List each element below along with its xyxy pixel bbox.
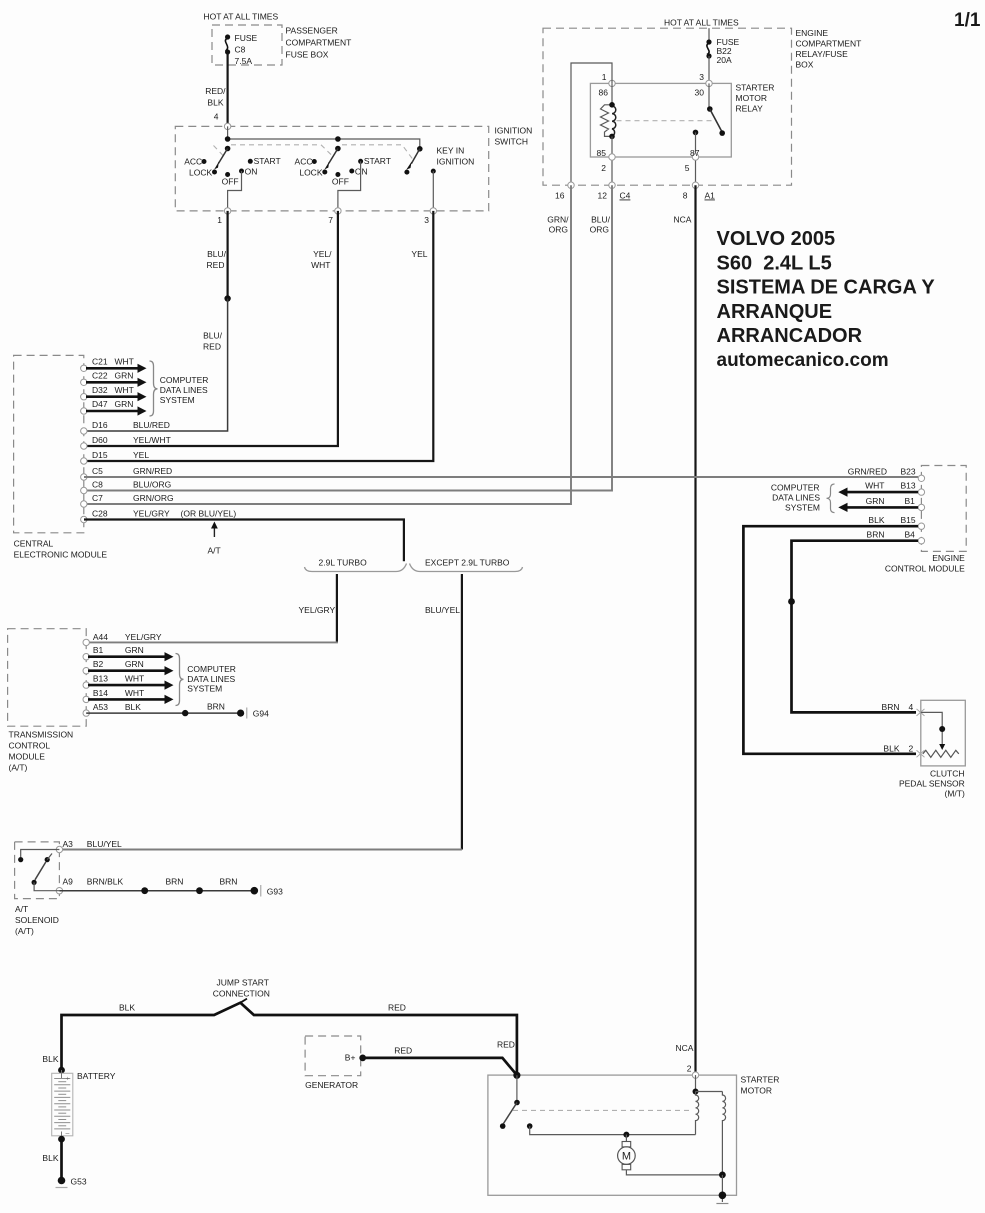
svg-text:NCA: NCA (676, 1043, 694, 1053)
svg-text:4: 4 (909, 702, 914, 712)
svg-text:ACC: ACC (184, 157, 202, 167)
svg-text:2: 2 (601, 163, 606, 173)
svg-text:ARRANQUE: ARRANQUE (717, 301, 833, 323)
svg-text:7: 7 (328, 215, 333, 225)
svg-text:B14: B14 (93, 688, 108, 698)
svg-text:C5: C5 (92, 466, 103, 476)
svg-text:SISTEMA DE CARGA Y: SISTEMA DE CARGA Y (717, 277, 936, 299)
svg-text:BLU/YEL: BLU/YEL (87, 839, 122, 849)
svg-text:85: 85 (597, 148, 607, 158)
svg-text:HOT AT ALL TIMES: HOT AT ALL TIMES (664, 18, 739, 28)
svg-text:BLK: BLK (207, 98, 223, 108)
svg-text:RED: RED (497, 1040, 515, 1050)
svg-text:B13: B13 (901, 481, 916, 491)
svg-text:B13: B13 (93, 674, 108, 684)
svg-text:3: 3 (699, 72, 704, 82)
svg-text:PEDAL SENSOR: PEDAL SENSOR (899, 779, 965, 789)
svg-text:WHT: WHT (115, 357, 134, 367)
svg-text:BLK: BLK (125, 702, 141, 712)
svg-text:ARRANCADOR: ARRANCADOR (717, 325, 863, 347)
svg-text:BOX: BOX (796, 60, 814, 70)
svg-text:–: – (66, 1131, 70, 1138)
svg-text:BLU/: BLU/ (591, 215, 611, 225)
svg-text:BLU/ORG: BLU/ORG (133, 480, 171, 490)
svg-text:IGNITION: IGNITION (437, 157, 475, 167)
svg-text:RED/: RED/ (205, 86, 226, 96)
svg-text:DATA LINES: DATA LINES (160, 385, 208, 395)
svg-text:D60: D60 (92, 435, 108, 445)
svg-text:2: 2 (909, 743, 914, 753)
svg-text:VOLVO 2005: VOLVO 2005 (717, 228, 836, 250)
svg-text:G94: G94 (253, 709, 269, 719)
svg-text:BRN: BRN (220, 877, 238, 887)
svg-text:DATA LINES: DATA LINES (187, 674, 235, 684)
svg-text:C7: C7 (92, 493, 103, 503)
svg-text:STARTER: STARTER (741, 1075, 780, 1085)
svg-text:(M/T): (M/T) (945, 789, 965, 799)
svg-text:B15: B15 (901, 515, 916, 525)
svg-text:OFF: OFF (222, 177, 239, 187)
svg-text:MOTOR: MOTOR (736, 93, 767, 103)
svg-text:JUMP START: JUMP START (217, 978, 269, 988)
svg-text:ON: ON (355, 167, 368, 177)
svg-text:BLK: BLK (42, 1054, 58, 1064)
svg-text:ELECTRONIC MODULE: ELECTRONIC MODULE (14, 550, 108, 560)
svg-text:BRN: BRN (867, 529, 885, 539)
svg-text:SYSTEM: SYSTEM (785, 503, 820, 513)
svg-text:C4: C4 (620, 191, 631, 201)
svg-text:GRN/ORG: GRN/ORG (133, 493, 174, 503)
svg-text:2.9L TURBO: 2.9L TURBO (319, 558, 368, 568)
svg-text:GRN: GRN (115, 371, 134, 381)
svg-text:1/1: 1/1 (954, 10, 981, 31)
svg-text:86: 86 (599, 88, 609, 98)
svg-text:1: 1 (602, 72, 607, 82)
svg-text:16: 16 (555, 191, 565, 201)
svg-text:WHT: WHT (311, 260, 330, 270)
svg-text:WHT: WHT (125, 674, 144, 684)
svg-text:RELAY/FUSE: RELAY/FUSE (796, 49, 849, 59)
svg-text:D15: D15 (92, 450, 108, 460)
svg-text:7.5A: 7.5A (235, 56, 253, 66)
svg-text:G53: G53 (71, 1177, 87, 1187)
svg-text:YEL/GRY: YEL/GRY (133, 509, 170, 519)
svg-text:GRN: GRN (866, 496, 885, 506)
svg-text:COMPUTER: COMPUTER (187, 664, 236, 674)
svg-text:MODULE: MODULE (9, 752, 46, 762)
svg-text:BLK: BLK (868, 515, 884, 525)
svg-text:B1: B1 (93, 645, 104, 655)
svg-text:D32: D32 (92, 385, 108, 395)
svg-text:RED: RED (394, 1046, 412, 1056)
svg-text:BATTERY: BATTERY (77, 1071, 116, 1081)
svg-text:MOTOR: MOTOR (741, 1086, 772, 1096)
svg-text:GRN/RED: GRN/RED (848, 467, 887, 477)
svg-text:GRN/RED: GRN/RED (133, 466, 172, 476)
svg-text:ORG: ORG (590, 225, 609, 235)
svg-text:YEL: YEL (133, 450, 149, 460)
svg-text:(A/T): (A/T) (15, 926, 34, 936)
svg-text:WHT: WHT (115, 385, 134, 395)
svg-text:D16: D16 (92, 420, 108, 430)
svg-text:LOCK: LOCK (299, 168, 322, 178)
svg-text:A9: A9 (63, 877, 74, 887)
svg-text:BRN: BRN (882, 702, 900, 712)
svg-text:GENERATOR: GENERATOR (305, 1080, 358, 1090)
svg-text:WHT: WHT (125, 688, 144, 698)
svg-text:FUSE: FUSE (235, 33, 258, 43)
svg-text:D47: D47 (92, 399, 108, 409)
svg-text:A/T: A/T (208, 546, 221, 556)
svg-text:A53: A53 (93, 702, 108, 712)
svg-text:SWITCH: SWITCH (495, 137, 529, 147)
svg-text:SYSTEM: SYSTEM (187, 684, 222, 694)
svg-text:FUSE BOX: FUSE BOX (286, 50, 329, 60)
svg-text:STARTER: STARTER (736, 83, 775, 93)
svg-text:COMPUTER: COMPUTER (160, 375, 209, 385)
svg-text:C8: C8 (235, 45, 246, 55)
svg-text:S60 2.4L L5: S60 2.4L L5 (717, 252, 832, 274)
svg-text:GRN: GRN (115, 399, 134, 409)
svg-text:B23: B23 (901, 467, 916, 477)
svg-text:12: 12 (598, 191, 608, 201)
svg-text:LOCK: LOCK (189, 168, 212, 178)
svg-text:ORG: ORG (549, 225, 568, 235)
svg-text:DATA LINES: DATA LINES (772, 493, 820, 503)
svg-text:YEL: YEL (411, 249, 427, 259)
svg-text:EXCEPT 2.9L TURBO: EXCEPT 2.9L TURBO (425, 558, 510, 568)
svg-text:OFF: OFF (332, 177, 349, 187)
svg-text:BLU/YEL: BLU/YEL (425, 605, 460, 615)
svg-text:BLK: BLK (42, 1153, 58, 1163)
svg-text:NCA: NCA (674, 215, 692, 225)
svg-text:SYSTEM: SYSTEM (160, 395, 195, 405)
svg-text:87: 87 (690, 148, 700, 158)
svg-text:COMPARTMENT: COMPARTMENT (796, 39, 862, 49)
svg-text:GRN: GRN (125, 645, 144, 655)
svg-text:BLU/: BLU/ (203, 331, 223, 341)
svg-text:YEL/: YEL/ (313, 249, 332, 259)
svg-text:+: + (66, 1077, 70, 1083)
svg-text:3: 3 (424, 215, 429, 225)
svg-text:GRN: GRN (125, 659, 144, 669)
svg-text:KEY IN: KEY IN (437, 146, 465, 156)
svg-text:COMPARTMENT: COMPARTMENT (286, 38, 352, 48)
svg-text:RED: RED (203, 342, 221, 352)
svg-text:ENGINE: ENGINE (796, 28, 829, 38)
svg-text:B4: B4 (905, 529, 916, 539)
svg-text:PASSENGER: PASSENGER (286, 26, 338, 36)
svg-text:2: 2 (687, 1064, 692, 1074)
svg-text:YEL/GRY: YEL/GRY (299, 605, 336, 615)
svg-text:HOT AT ALL TIMES: HOT AT ALL TIMES (204, 12, 279, 22)
svg-text:CLUTCH: CLUTCH (930, 769, 964, 779)
svg-text:ON: ON (245, 167, 258, 177)
svg-text:TRANSMISSION: TRANSMISSION (9, 730, 74, 740)
svg-text:WHT: WHT (865, 481, 884, 491)
svg-text:SOLENOID: SOLENOID (15, 915, 59, 925)
svg-text:START: START (364, 156, 391, 166)
svg-text:BRN/BLK: BRN/BLK (87, 877, 124, 887)
svg-text:BLU/: BLU/ (207, 249, 227, 259)
svg-text:B2: B2 (93, 659, 104, 669)
svg-text:BLK: BLK (883, 743, 899, 753)
svg-text:20A: 20A (717, 55, 732, 65)
svg-text:(A/T): (A/T) (9, 763, 28, 773)
svg-text:RED: RED (388, 1003, 406, 1013)
svg-text:C21: C21 (92, 357, 108, 367)
svg-text:RELAY: RELAY (736, 104, 764, 114)
svg-text:CONTROL MODULE: CONTROL MODULE (885, 564, 965, 574)
svg-text:ACC: ACC (295, 157, 313, 167)
svg-text:COMPUTER: COMPUTER (771, 483, 820, 493)
svg-text:ENGINE: ENGINE (932, 553, 965, 563)
svg-text:5: 5 (685, 163, 690, 173)
svg-text:YEL/WHT: YEL/WHT (133, 435, 171, 445)
svg-text:IGNITION: IGNITION (495, 126, 533, 136)
svg-text:C22: C22 (92, 371, 108, 381)
svg-text:START: START (254, 156, 281, 166)
svg-text:BLU/RED: BLU/RED (133, 420, 170, 430)
svg-text:A3: A3 (63, 839, 74, 849)
svg-text:RED: RED (207, 260, 225, 270)
svg-text:CONTROL: CONTROL (9, 741, 51, 751)
svg-text:A44: A44 (93, 632, 108, 642)
svg-text:(OR BLU/YEL): (OR BLU/YEL) (181, 509, 237, 519)
svg-text:B1: B1 (905, 496, 916, 506)
svg-text:GRN/: GRN/ (547, 215, 569, 225)
svg-text:A/T: A/T (15, 904, 28, 914)
svg-text:1: 1 (217, 215, 222, 225)
svg-text:CONNECTION: CONNECTION (213, 989, 270, 999)
svg-text:BRN: BRN (166, 877, 184, 887)
svg-text:B+: B+ (345, 1053, 356, 1063)
svg-text:A1: A1 (705, 191, 716, 201)
svg-text:C28: C28 (92, 509, 108, 519)
svg-text:M: M (622, 1151, 631, 1163)
svg-text:G93: G93 (267, 887, 283, 897)
svg-text:CENTRAL: CENTRAL (14, 539, 54, 549)
svg-text:YEL/GRY: YEL/GRY (125, 632, 162, 642)
svg-text:automecanico.com: automecanico.com (717, 350, 889, 371)
svg-text:8: 8 (683, 191, 688, 201)
svg-text:BLK: BLK (119, 1003, 135, 1013)
svg-text:30: 30 (695, 88, 705, 98)
svg-text:C8: C8 (92, 480, 103, 490)
svg-text:BRN: BRN (207, 702, 225, 712)
svg-text:4: 4 (214, 112, 219, 122)
